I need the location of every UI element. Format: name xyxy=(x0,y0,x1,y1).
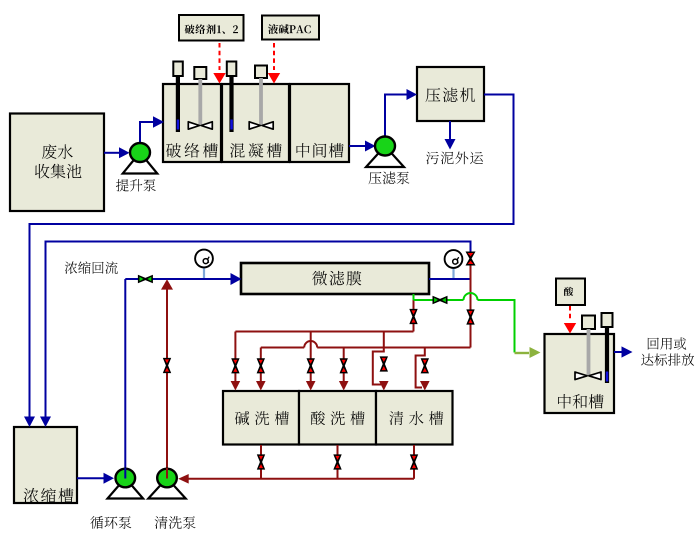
wash branch 3 (upper header to 酸洗槽) xyxy=(310,332,312,383)
tank 清水槽 (clean water tank) xyxy=(376,391,453,445)
drain valve 2 xyxy=(333,454,341,469)
tank 中和槽 (neutralization tank) xyxy=(545,334,615,413)
pump 清洗泵 (cleaning pump) xyxy=(148,478,185,499)
pressure gauge stem (feed) xyxy=(203,267,205,279)
label 酸洗槽 xyxy=(311,411,365,425)
mixer in 混凝槽 xyxy=(255,66,267,79)
label 压滤泵 xyxy=(369,172,410,185)
probe in 中和槽 xyxy=(602,313,613,327)
pump 循环泵 (circulation pump) xyxy=(108,478,144,499)
label 污泥外运 (sludge transported out) xyxy=(426,152,483,165)
wash tank drain 1 xyxy=(260,445,262,479)
wire lower wash header xyxy=(261,341,471,348)
valve branch 5 xyxy=(380,356,388,371)
wire permeate stub to upper header xyxy=(413,300,415,332)
dosing line 液碱PAC to 混凝槽 xyxy=(273,43,275,70)
wire membrane concentrate outlet xyxy=(429,278,471,280)
wire drain header to cleaning pump xyxy=(188,478,414,480)
dosing box 液碱PAC xyxy=(262,16,319,40)
wire permeate to 中和槽 (olive tail) xyxy=(515,352,530,354)
label 混凝槽 xyxy=(230,143,282,158)
probe in 混凝槽 xyxy=(227,62,237,77)
valve branch 2 xyxy=(257,358,265,373)
pressure gauge (feed) xyxy=(195,250,213,268)
label 中和槽 xyxy=(558,394,604,409)
tank 中间槽 (intermediate tank) xyxy=(290,84,349,162)
tank 碱洗槽 (alkali wash tank) xyxy=(223,391,299,445)
tank 浓缩槽 (concentration tank) xyxy=(14,427,77,503)
label 回用或达标排放 (reuse or compliant discharge) xyxy=(648,337,686,349)
wire 压滤机 filtrate loop to 浓缩槽 (outer) xyxy=(30,95,514,419)
unit 压滤机 (filter press) xyxy=(417,67,484,121)
label 微滤膜 xyxy=(312,271,361,286)
wash branch 6 with bypass (lower header to 清水槽) xyxy=(416,348,425,388)
pressure gauge stem (concentrate) xyxy=(452,267,454,278)
label 液碱PAC xyxy=(268,24,311,34)
valve branch 3 xyxy=(307,358,315,373)
valve on drop line upper xyxy=(466,252,476,266)
wire membrane permeate line xyxy=(414,293,515,353)
probe in 破络槽 xyxy=(173,62,183,77)
wire lift pump to 破络槽 xyxy=(140,122,154,146)
valve branch 6 xyxy=(421,358,429,373)
dosing line 酸 to 中和槽 xyxy=(569,306,571,321)
drain valve 3 xyxy=(410,454,418,469)
label 浓缩槽 xyxy=(24,488,74,503)
pump 压滤泵 (filter press pump) xyxy=(366,146,404,167)
label 中间槽 xyxy=(297,143,344,158)
unit 微滤膜 (microfiltration membrane) xyxy=(241,263,429,294)
label 破络剂1、2 xyxy=(185,24,238,34)
dosing box 酸 (acid) xyxy=(556,279,585,306)
wire 中和槽 discharge xyxy=(614,351,622,353)
dosing box 破络剂1、2 xyxy=(179,15,244,41)
mixer in 破络槽 xyxy=(194,67,206,79)
wire 浓缩槽 to circulation pump xyxy=(77,477,105,479)
wire upper wash header xyxy=(235,331,413,333)
label 循环泵 xyxy=(90,516,131,529)
wash branch 2 (lower header to 碱洗槽) xyxy=(260,348,262,383)
valve on drop line lower xyxy=(466,309,474,324)
label 废水收集池 xyxy=(42,144,73,159)
wash tank drain 3 xyxy=(413,445,415,479)
wire membrane feed line xyxy=(125,278,231,280)
label 提升泵 xyxy=(116,179,156,191)
valve on permeate line xyxy=(433,296,448,304)
valve branch 1 xyxy=(231,358,239,373)
valve on cleaning pump riser xyxy=(163,358,171,373)
valve on membrane feed line xyxy=(138,275,153,283)
label 酸 xyxy=(564,287,573,296)
label 破络槽 xyxy=(166,143,218,158)
wire 中间槽 to filter-press pump xyxy=(349,145,367,147)
label 碱洗槽 xyxy=(235,411,289,425)
pressure gauge (concentrate) xyxy=(445,250,463,268)
wire circulation pump riser xyxy=(124,279,126,468)
wire concentrate return header to 浓缩槽 (inner) xyxy=(46,242,471,419)
valve on permeate stub xyxy=(409,309,417,324)
tank 废水收集池 (wastewater collection tank) xyxy=(10,114,104,212)
tank 混凝槽 (coagulation tank) xyxy=(222,84,289,162)
wash branch 4 (lower header to 酸洗槽) xyxy=(343,348,345,383)
label 清洗泵 xyxy=(155,516,196,529)
pump 提升泵 (lift pump) xyxy=(123,153,158,174)
label 压滤机 xyxy=(426,88,476,103)
valve branch 4 xyxy=(340,358,348,373)
wire filter-press pump to 压滤机 xyxy=(385,95,408,139)
dosing line 破络剂 to 破络槽 xyxy=(219,43,221,70)
wire 压滤机 sludge outlet xyxy=(449,121,451,140)
wire concentrate/CIP drop line x470 xyxy=(470,266,472,348)
wash tank drain 2 xyxy=(337,445,339,479)
tank 酸洗槽 (acid wash tank) xyxy=(299,391,376,445)
tank 破络槽 (complex-breaking tank) xyxy=(163,84,221,162)
label 浓缩回流 (concentrate return) xyxy=(65,261,118,274)
wash branch 5 with bypass (upper header to 清水槽) xyxy=(373,332,384,385)
wire collection tank to lift pump xyxy=(104,152,120,154)
wire cleaning pump riser xyxy=(166,289,168,468)
label 清水槽 xyxy=(389,411,443,425)
mixer in 中和槽 xyxy=(582,316,595,330)
drain valve 1 xyxy=(257,454,265,469)
wash branch 1 (upper header to 碱洗槽) xyxy=(234,332,236,383)
